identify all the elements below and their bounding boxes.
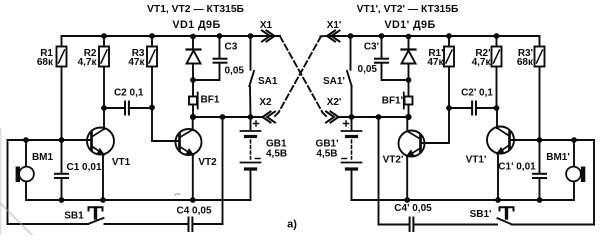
svg-text:VT1, VT2 — КТ315Б: VT1, VT2 — КТ315Б bbox=[147, 4, 245, 15]
node dot BF1 collector bbox=[190, 114, 196, 120]
resistor R2 bbox=[99, 36, 109, 108]
svg-text:а): а) bbox=[287, 218, 297, 230]
node dot top rail R3 bbox=[149, 33, 155, 39]
svg-text:X1': X1' bbox=[327, 20, 342, 31]
wire: riser X2 line to bottom rail bbox=[222, 117, 224, 224]
svg-text:VD1 Д9Б: VD1 Д9Б bbox=[172, 19, 220, 31]
wire: R1' node down to VT2' base bbox=[421, 108, 450, 143]
svg-text:VT2: VT2 bbox=[198, 157, 217, 168]
wire: left bottom rail to SB1 bbox=[8, 223, 89, 225]
resistor R1' bbox=[444, 36, 454, 108]
svg-text:0,05: 0,05 bbox=[358, 64, 378, 75]
node dot VD1'-C3' junction bbox=[406, 77, 412, 83]
node dot top rail R2' bbox=[494, 33, 500, 39]
svg-text:X2': X2' bbox=[327, 97, 342, 108]
svg-text:C1' 0,01: C1' 0,01 bbox=[498, 162, 536, 173]
transistor VT1 bbox=[87, 108, 114, 200]
svg-text:4,7к: 4,7к bbox=[472, 57, 492, 68]
node dot top rail SA1' bbox=[348, 33, 354, 39]
wire: scan artifact squiggle bbox=[175, 194, 181, 196]
capacitor C4' bbox=[410, 218, 414, 232]
wire: left top supply rail bbox=[62, 35, 281, 37]
node dot VD1-C3 junction bbox=[190, 77, 196, 83]
capacitor C1 bbox=[55, 140, 68, 200]
node dot C2-R3 bbox=[149, 105, 155, 111]
node dot top rail VD1 bbox=[190, 34, 196, 40]
svg-text:X2: X2 bbox=[259, 97, 272, 108]
wire: left bottom rail C4 to riser bbox=[194, 223, 223, 225]
svg-text:SB1: SB1 bbox=[64, 211, 84, 222]
svg-text:C3: C3 bbox=[225, 42, 238, 53]
svg-text:BF1': BF1' bbox=[382, 96, 403, 107]
svg-text:X1: X1 bbox=[260, 20, 273, 31]
svg-text:BF1: BF1 bbox=[201, 95, 220, 106]
wire: crossover cable X1 to X2' bbox=[280, 36, 326, 116]
microphone BM1 bbox=[16, 140, 34, 200]
earphone BF1 bbox=[189, 93, 198, 118]
wire: R3 node down to VT2 base bbox=[152, 108, 180, 142]
capacitor C3 bbox=[193, 36, 227, 80]
node dot emitter rail VT2' bbox=[404, 197, 410, 203]
svg-text:47к: 47к bbox=[427, 57, 444, 68]
wire: crossover cable X1' to X2 bbox=[275, 36, 327, 116]
node dot emitter rail C1' bbox=[537, 197, 543, 203]
svg-text:VT1', VT2' — КТ315Б: VT1', VT2' — КТ315Б bbox=[357, 4, 459, 15]
microphone BM1' bbox=[566, 140, 585, 200]
svg-text:VT2': VT2' bbox=[383, 155, 404, 166]
battery GB1' bbox=[342, 117, 362, 200]
connector X2' bbox=[326, 112, 339, 123]
svg-text:C4 0,05: C4 0,05 bbox=[176, 206, 211, 217]
wire: left X2 line bbox=[193, 116, 262, 118]
wire: right rail vertical bbox=[593, 140, 595, 225]
wire: riser X2' line to bottom rail bbox=[378, 117, 380, 225]
wire: left rail vertical bbox=[7, 140, 9, 224]
transistor VT2' bbox=[399, 117, 425, 200]
switch SA1' bbox=[347, 36, 352, 117]
connector X1' bbox=[327, 31, 340, 42]
svg-text:C1 0,01: C1 0,01 bbox=[66, 162, 101, 173]
pushbutton SB1 bbox=[88, 207, 104, 224]
wire: scan artifact bottom-left diagonal bbox=[0, 203, 33, 236]
node dot BF1' collector bbox=[405, 114, 411, 120]
node dot top rail R2 bbox=[101, 33, 107, 39]
transistor VT2 bbox=[176, 117, 202, 200]
svg-text:C2' 0,1: C2' 0,1 bbox=[461, 88, 493, 99]
wire: right X2' line bbox=[340, 116, 409, 118]
node dot X2 battery bbox=[248, 114, 254, 120]
wire: right emitter rail y200 bbox=[352, 199, 575, 201]
node dot top rail C3' bbox=[379, 33, 385, 39]
svg-text:VT1': VT1' bbox=[466, 155, 487, 166]
wire: left emitter rail y200 bbox=[26, 199, 251, 201]
wire: scan artifact left edge bbox=[0, 128, 2, 235]
node dot top rail R1' bbox=[446, 33, 452, 39]
node dot emitter rail VT2 bbox=[190, 197, 196, 203]
wire: right top supply rail bbox=[327, 35, 540, 37]
switch SA1 bbox=[249, 36, 254, 117]
node dot emitter rail C1 bbox=[59, 197, 65, 203]
capacitor C4 bbox=[189, 218, 193, 232]
svg-text:C3': C3' bbox=[364, 42, 379, 53]
svg-text:C4' 0,05: C4' 0,05 bbox=[394, 203, 432, 214]
resistor R3 bbox=[147, 36, 157, 108]
svg-text:4,7к: 4,7к bbox=[78, 57, 98, 68]
node dot top rail SA1 bbox=[248, 33, 254, 39]
svg-text:BM1': BM1' bbox=[546, 152, 570, 163]
node dot emitter rail VT1' bbox=[495, 197, 501, 203]
wire: left bottom rail SB1 to C4 bbox=[105, 223, 188, 225]
node dot base line R3' C1' bbox=[537, 137, 543, 143]
svg-text:4,5В: 4,5В bbox=[316, 149, 337, 160]
diode VD1 bbox=[187, 36, 201, 97]
svg-text:0,05: 0,05 bbox=[225, 66, 245, 77]
svg-text:68к: 68к bbox=[517, 57, 534, 68]
transistor VT1' bbox=[487, 108, 514, 200]
svg-text:68к: 68к bbox=[37, 57, 54, 68]
svg-text:BM1: BM1 bbox=[32, 152, 54, 163]
capacitor C3' bbox=[375, 36, 409, 80]
diode VD1' bbox=[402, 36, 416, 97]
capacitor C2' bbox=[449, 102, 497, 115]
node dot collector VT1 bbox=[101, 105, 107, 111]
battery GB1 bbox=[241, 117, 261, 200]
node dot collector VT1' bbox=[494, 105, 500, 111]
node dot X2' battery bbox=[349, 114, 355, 120]
svg-text:VD1' Д9Б: VD1' Д9Б bbox=[384, 19, 435, 31]
capacitor C2 bbox=[104, 102, 152, 115]
svg-text:47к: 47к bbox=[128, 57, 145, 68]
wire: left base line y140 bbox=[8, 139, 92, 141]
node dot X2' riser bbox=[376, 114, 382, 120]
wire: right base line y140 bbox=[510, 139, 595, 141]
node dot base line BM1' bbox=[571, 137, 577, 143]
wire: right bottom rail riser to C4' bbox=[379, 224, 409, 226]
svg-text:VT1: VT1 bbox=[112, 157, 131, 168]
capacitor C1' bbox=[533, 140, 546, 200]
svg-text:SA1: SA1 bbox=[258, 76, 278, 87]
wire: right bottom rail C4' to SB1' bbox=[415, 224, 498, 226]
pushbutton SB1' bbox=[498, 207, 514, 224]
resistor R2' bbox=[492, 36, 502, 108]
wire: right bottom rail from SB1' bbox=[512, 224, 595, 226]
node dot top rail C3 bbox=[217, 33, 223, 39]
node dot top rail VD1' bbox=[406, 34, 412, 40]
node dot base line BM1 bbox=[23, 137, 29, 143]
node dot C2'-R1' bbox=[446, 105, 452, 111]
earphone BF1' bbox=[404, 93, 413, 118]
svg-text:4,5В: 4,5В bbox=[266, 149, 287, 160]
connector X2 bbox=[263, 112, 276, 123]
svg-text:SB1': SB1' bbox=[470, 209, 492, 220]
node dot emitter rail VT1 bbox=[100, 197, 106, 203]
resistor R1 bbox=[57, 36, 67, 140]
node dot base line R1 C1 bbox=[59, 137, 65, 143]
svg-text:C2 0,1: C2 0,1 bbox=[114, 88, 144, 99]
connector X1 bbox=[262, 31, 275, 42]
svg-text:SA1': SA1' bbox=[323, 76, 345, 87]
node dot X2 riser bbox=[220, 114, 226, 120]
resistor R3' bbox=[535, 36, 545, 140]
